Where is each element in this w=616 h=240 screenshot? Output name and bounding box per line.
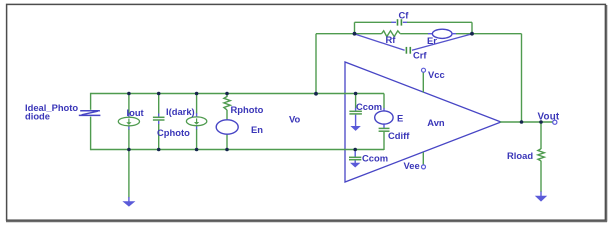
svg-text:Iout: Iout: [127, 107, 144, 118]
current source Iout: [118, 117, 139, 126]
wire: Iout branch: [128, 93, 130, 150]
node dot Iout top: [127, 92, 131, 96]
svg-text:I(dark): I(dark): [166, 106, 195, 117]
wire: right feedback drop: [471, 22, 473, 34]
svg-text:Cphoto: Cphoto: [157, 127, 190, 138]
wire: output: [500, 121, 553, 123]
svg-text:Cdiff: Cdiff: [388, 130, 410, 141]
wire: feedback riser: [315, 34, 317, 94]
capacitor Ccom (bottom): [349, 157, 361, 159]
svg-text:E: E: [397, 113, 403, 124]
capacitor Cf: [398, 19, 402, 25]
ground arrow (Ccom bottom): [350, 163, 360, 168]
wire: Cphoto branch: [158, 93, 160, 150]
node dot Ccom top tap: [354, 92, 358, 96]
capacitor Cphoto: [153, 117, 165, 120]
resistor Rphoto: [224, 97, 230, 110]
wire: feedback bus left segment: [316, 33, 382, 35]
svg-text:Rphoto: Rphoto: [231, 104, 264, 115]
svg-text:diode: diode: [25, 111, 50, 122]
wire: I(dark) branch: [196, 93, 198, 150]
svg-text:Rload: Rload: [507, 150, 533, 161]
svg-text:En: En: [251, 124, 263, 135]
node dot Idark bottom: [195, 148, 199, 152]
pin Vcc: [422, 68, 426, 92]
svg-text:Ccom: Ccom: [362, 153, 388, 164]
label Ideal_Photo diode: [25, 102, 78, 122]
wire: Cf top run: [355, 21, 473, 23]
node dot feedback tap: [314, 92, 318, 96]
capacitor Crf: [406, 47, 410, 54]
ground (right): [535, 196, 547, 202]
node dot Rphoto top: [225, 92, 229, 96]
wire: Cf stub up: [354, 22, 356, 34]
resistor Rf: [382, 31, 401, 37]
node dot output Rload: [539, 120, 543, 124]
voltage source Er: [432, 29, 452, 38]
svg-text:Cf: Cf: [399, 10, 410, 21]
node dot Iout bottom: [127, 148, 131, 152]
wire: Ccom bottom branch: [354, 150, 356, 164]
wire: bottom rail: [91, 149, 384, 151]
svg-text:Ccom: Ccom: [356, 101, 382, 112]
wire: Crf right diagonal: [412, 34, 472, 50]
wire: Ccom top branch: [355, 94, 357, 127]
svg-text:Avn: Avn: [427, 117, 445, 128]
svg-text:Vcc: Vcc: [428, 69, 445, 80]
wire: Crf left diagonal: [356, 34, 405, 50]
svg-text:Vee: Vee: [404, 160, 420, 171]
wire: Rload branch: [540, 122, 542, 196]
voltage source En: [216, 120, 238, 134]
node dot feedback right: [470, 32, 474, 36]
svg-text:Crf: Crf: [413, 50, 427, 61]
pin Vee: [422, 152, 426, 169]
diode Ideal_Photo: [79, 111, 101, 116]
resistor Rload: [538, 149, 544, 161]
voltage source E: [375, 111, 393, 124]
wire: Er to right junction: [452, 33, 472, 35]
wire: Rphoto/En branch: [226, 93, 228, 150]
ground arrow (Ccom top): [350, 126, 360, 131]
capacitor Ccom (top): [349, 111, 362, 114]
wire: photodiode branch: [90, 93, 92, 150]
capacitor Cdiff: [379, 128, 390, 131]
node dot Idark top: [195, 92, 199, 96]
wire: E / Cdiff branch: [383, 94, 385, 151]
node dot Cphoto top: [157, 92, 161, 96]
node dot output feedback: [520, 120, 524, 124]
current source I(dark): [186, 117, 206, 126]
node dot Ccom bottom tap: [353, 148, 357, 152]
terminal Vout: [553, 120, 557, 124]
op-amp U1: [345, 62, 501, 182]
wire: top rail node Vo: [91, 93, 384, 95]
wire: left ground stub: [128, 149, 130, 202]
node dot Rphoto bottom: [225, 148, 229, 152]
wire: input rail inside op-amp: [344, 94, 384, 150]
wire: feedback to output node: [472, 34, 522, 122]
ground (left): [122, 201, 135, 206]
node dot feedback left: [353, 32, 357, 36]
svg-text:Rf: Rf: [386, 34, 397, 45]
node dot Cphoto bottom: [157, 148, 161, 152]
wire: Rf to Er: [400, 33, 433, 35]
svg-text:Vo: Vo: [289, 114, 301, 125]
